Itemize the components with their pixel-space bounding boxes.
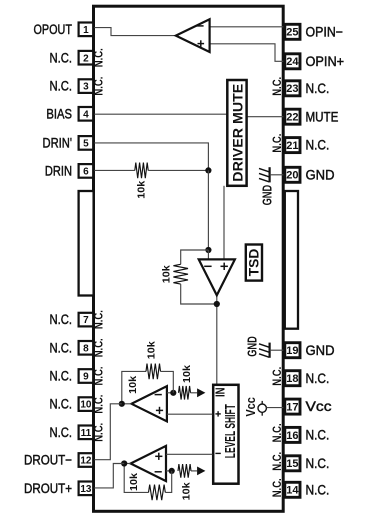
- wire R5 to arrow: [191, 470, 197, 472]
- pin 6 label DRIN: [45, 164, 72, 179]
- node B junction (U4 inverting input): [205, 247, 211, 253]
- svg-text:13: 13: [80, 484, 92, 495]
- label R2 10k: [161, 265, 173, 283]
- arrow into LEVEL SHIFT (lower): [197, 467, 205, 476]
- pin 13 box: [79, 482, 94, 496]
- wire pin4 BIAS to DRIVER MUTE block: [94, 113, 228, 115]
- label R5 10k: [180, 482, 192, 500]
- wire R1 to node A: [148, 169, 208, 171]
- U2 plus sign: [156, 407, 163, 414]
- svg-text:TSD: TSD: [247, 248, 262, 276]
- svg-text:GND: GND: [306, 167, 335, 182]
- inner N.C. label (pin 18): [270, 367, 284, 386]
- pin 9 box: [79, 369, 94, 383]
- wire node A down to node B: [207, 170, 209, 250]
- pin 2 box: [79, 51, 94, 65]
- inner N.C. label (pin 16): [270, 423, 284, 442]
- resistor R6 10k (U3 feedback): [149, 485, 166, 501]
- node D junction (U2 inverting): [170, 390, 176, 396]
- svg-text:N.C.: N.C.: [91, 367, 105, 386]
- inner N.C. label (pin 9): [91, 367, 105, 386]
- wire node G to pin13 DROUT+: [94, 464, 125, 488]
- wire gnd to pin19: [270, 349, 285, 351]
- svg-text:N.C.: N.C.: [270, 478, 284, 497]
- pin 12 label DROUT&#8722;: [24, 453, 72, 468]
- inner N.C. label (pin 14): [270, 478, 284, 497]
- pin 11 label N.C.: [50, 425, 73, 440]
- pin 3 box: [79, 79, 94, 93]
- pin 10 label N.C.: [50, 397, 73, 412]
- label GND rotated (pin19): [246, 336, 260, 357]
- pin 1 box: [79, 23, 94, 37]
- label LEVEL SHIFT IN: [213, 388, 227, 398]
- U4 minus sign: [204, 265, 211, 267]
- inner N.C. label (pin 21): [270, 134, 284, 153]
- svg-text:N.C.: N.C.: [306, 371, 330, 386]
- IC body outline: [94, 6, 284, 511]
- pin 19 box: [285, 343, 300, 358]
- resistor R1 10k (DRIN input): [135, 163, 148, 179]
- svg-text:5: 5: [83, 139, 89, 150]
- arrow into LEVEL SHIFT IN: [197, 388, 205, 397]
- svg-text:9: 9: [83, 372, 89, 383]
- svg-text:10: 10: [80, 400, 92, 411]
- svg-text:4: 4: [83, 109, 89, 120]
- svg-text:16: 16: [286, 430, 298, 442]
- wire U4 feedback top: [181, 250, 209, 264]
- label DRIVER MUTE: [229, 84, 245, 182]
- svg-text:25: 25: [286, 27, 298, 39]
- svg-text:N.C.: N.C.: [91, 338, 105, 357]
- wire U3 feedback left vertical: [124, 464, 148, 493]
- pin 8 box: [79, 341, 94, 355]
- wire DRIVER MUTE output down to U4 non-inverting input: [223, 186, 225, 260]
- svg-text:N.C.: N.C.: [270, 77, 284, 96]
- pin 22 label MUTE: [306, 109, 339, 124]
- label R3 10k: [181, 365, 193, 383]
- wire R2 to U4 output node: [181, 284, 217, 304]
- wire node E to pin12 DROUT-: [94, 404, 122, 460]
- svg-text:N.C.: N.C.: [50, 340, 73, 355]
- pin 20 label GND: [306, 167, 335, 182]
- svg-text:N.C.: N.C.: [306, 428, 330, 443]
- pin 22 box: [285, 109, 300, 124]
- svg-text:1: 1: [83, 25, 89, 36]
- svg-text:N.C.: N.C.: [306, 456, 330, 471]
- svg-text:OPOUT: OPOUT: [34, 22, 73, 37]
- left unused-pins bar: [79, 191, 94, 296]
- resistor R5 10k (U3 to level shift): [178, 464, 191, 478]
- svg-text:18: 18: [286, 373, 298, 385]
- pin 14 label N.C.: [306, 482, 330, 497]
- svg-text:MUTE: MUTE: [306, 109, 339, 124]
- wire pin1 OPOUT to op-amp U1 output: [94, 28, 177, 36]
- label LEVEL SHIFT minus: [215, 452, 220, 454]
- svg-text:23: 23: [286, 83, 298, 95]
- pin 7 label N.C.: [50, 312, 73, 327]
- U3 minus sign: [155, 471, 162, 473]
- svg-text:N.C.: N.C.: [50, 397, 73, 412]
- inner N.C. label (pin 2): [91, 48, 105, 67]
- svg-text:7: 7: [83, 315, 89, 326]
- svg-text:N.C.: N.C.: [91, 423, 105, 442]
- op-amp U3 (DROUT+ driver, points left): [131, 446, 166, 481]
- svg-text:DRIN: DRIN: [45, 164, 72, 179]
- svg-text:N.C.: N.C.: [50, 50, 73, 65]
- label 10k near U2 output node: [127, 376, 139, 394]
- svg-text:DRIN': DRIN': [43, 136, 73, 151]
- svg-text:8: 8: [83, 343, 89, 354]
- svg-text:BIAS: BIAS: [46, 106, 72, 121]
- label Vcc rotated (pin17): [243, 397, 258, 416]
- svg-text:N.C.: N.C.: [306, 138, 330, 153]
- svg-text:DROUT−: DROUT−: [24, 453, 72, 468]
- pin 3 label N.C.: [50, 79, 73, 94]
- op-amp U4 (driver amp, points down): [199, 259, 235, 295]
- pin 20 box: [285, 167, 300, 182]
- svg-text:GND: GND: [306, 343, 335, 358]
- U1 minus sign: [196, 25, 203, 27]
- svg-text:N.C.: N.C.: [91, 77, 105, 96]
- svg-text:15: 15: [286, 458, 298, 470]
- pin 18 label N.C.: [306, 371, 330, 386]
- wire U3 non-inverting input to LEVEL SHIFT: [166, 453, 212, 455]
- label GND rotated (pin20): [260, 185, 274, 206]
- svg-text:21: 21: [286, 140, 298, 152]
- block LEVEL SHIFT: [213, 385, 238, 484]
- pin 23 box: [285, 81, 300, 96]
- svg-text:N.C.: N.C.: [50, 79, 73, 94]
- pin 15 label N.C.: [306, 456, 330, 471]
- inner N.C. label (pin 7): [91, 310, 105, 329]
- inner N.C. label (pin 8): [91, 338, 105, 357]
- pin 19 label GND: [306, 343, 335, 358]
- pin 11 box: [79, 426, 94, 440]
- svg-text:3: 3: [83, 82, 89, 93]
- svg-text:19: 19: [286, 345, 298, 357]
- pin 1 label OPOUT: [34, 22, 73, 37]
- label R4 10k: [146, 341, 158, 359]
- wire op-amp U1 inverting input to pin25 OPIN-: [210, 26, 285, 28]
- wire op-amp U1 non-inverting input to pin24 OPIN+: [210, 44, 285, 62]
- Vcc terminal symbol at pin17: [258, 401, 266, 416]
- pin 13 label DROUT+: [24, 481, 72, 496]
- pin 5 label DRIN&#39;: [43, 136, 73, 151]
- svg-text:DROUT+: DROUT+: [24, 481, 72, 496]
- svg-text:10k: 10k: [135, 181, 147, 199]
- pin 9 label N.C.: [50, 369, 73, 384]
- pin 17 label Vcc: [306, 399, 332, 414]
- node F junction (U3 inverting): [169, 468, 175, 474]
- wire R3 to arrow: [191, 392, 198, 394]
- svg-text:N.C.: N.C.: [91, 395, 105, 414]
- resistor R4 10k (U2 feedback): [146, 364, 161, 380]
- label 10k near U3 output node: [128, 473, 140, 491]
- svg-text:GND: GND: [246, 336, 260, 357]
- svg-text:N.C.: N.C.: [91, 310, 105, 329]
- label TSD: [247, 248, 262, 276]
- wire Vcc to pin17: [266, 407, 284, 409]
- block DRIVER MUTE: [227, 80, 246, 186]
- label LEVEL SHIFT text: [223, 404, 239, 458]
- svg-text:10k: 10k: [128, 473, 140, 491]
- node E junction (U2 output): [119, 401, 125, 407]
- svg-text:N.C.: N.C.: [270, 134, 284, 153]
- svg-text:10k: 10k: [181, 365, 193, 383]
- svg-text:20: 20: [286, 170, 298, 182]
- op-amp U2 (DROUT- driver, points left): [132, 386, 167, 421]
- pin 24 label OPIN+: [306, 54, 345, 69]
- wire U2 feedback left vertical: [122, 371, 146, 403]
- inner N.C. label (pin 15): [270, 452, 284, 471]
- svg-text:Vcc: Vcc: [306, 399, 332, 414]
- node A junction (DRIN/DRIN'): [205, 167, 211, 173]
- inner N.C. label (pin 10): [91, 395, 105, 414]
- svg-text:Vcc: Vcc: [243, 397, 258, 416]
- pin 10 box: [79, 397, 94, 411]
- pin 17 box: [285, 399, 300, 414]
- pin 4 box: [79, 107, 94, 121]
- wire U2 inverting input: [167, 392, 173, 394]
- pin 21 label N.C.: [306, 138, 330, 153]
- pin 21 box: [285, 138, 300, 153]
- pin 6 box: [79, 164, 94, 178]
- svg-text:14: 14: [286, 485, 299, 497]
- op-amp U1 (input op-amp, points left): [176, 19, 210, 52]
- node C junction (U4 output): [214, 301, 220, 307]
- wire U3 inverting input: [166, 470, 172, 472]
- svg-text:DRIVER MUTE: DRIVER MUTE: [229, 84, 245, 182]
- svg-text:N.C.: N.C.: [50, 425, 73, 440]
- svg-text:OPIN+: OPIN+: [306, 54, 345, 69]
- U3 plus sign: [155, 453, 162, 460]
- wire DRIVER MUTE block to pin22 MUTE: [247, 116, 285, 118]
- svg-text:N.C.: N.C.: [270, 367, 284, 386]
- label LEVEL SHIFT plus: [215, 411, 220, 416]
- svg-text:12: 12: [80, 456, 92, 467]
- svg-text:10k: 10k: [161, 265, 173, 283]
- svg-text:N.C.: N.C.: [306, 81, 330, 96]
- wire gnd to pin20: [270, 174, 285, 176]
- pin 16 box: [285, 427, 300, 442]
- inner N.C. label (pin 23): [270, 77, 284, 96]
- svg-text:24: 24: [286, 56, 299, 68]
- pin 2 label N.C.: [50, 50, 73, 65]
- wire U2 output to node E: [122, 403, 132, 405]
- svg-text:17: 17: [286, 402, 298, 414]
- inner N.C. label (pin 3): [91, 77, 105, 96]
- inner N.C. label (pin 11): [91, 423, 105, 442]
- ground symbol at pin20: [259, 167, 270, 182]
- pin 4 label BIAS: [46, 106, 72, 121]
- svg-text:N.C.: N.C.: [270, 423, 284, 442]
- pin 18 box: [285, 371, 300, 386]
- resistor R3 10k (U2 to level shift): [179, 386, 191, 400]
- pin 14 box: [285, 482, 300, 497]
- svg-text:GND: GND: [260, 185, 274, 206]
- svg-text:11: 11: [81, 428, 92, 439]
- pin 24 box: [285, 54, 300, 69]
- svg-text:IN: IN: [213, 388, 227, 398]
- svg-text:N.C.: N.C.: [91, 48, 105, 67]
- pin 15 box: [285, 456, 300, 471]
- svg-text:10k: 10k: [127, 376, 139, 394]
- pin 7 box: [79, 313, 94, 327]
- pin 25 box: [285, 24, 300, 39]
- wire U4 output down to LEVEL SHIFT: [216, 295, 218, 385]
- pin 8 label N.C.: [50, 340, 73, 355]
- svg-text:10k: 10k: [180, 482, 192, 500]
- svg-text:N.C.: N.C.: [270, 452, 284, 471]
- svg-text:N.C.: N.C.: [306, 482, 330, 497]
- wire U2 non-inverting input to LEVEL SHIFT: [167, 413, 213, 415]
- ground symbol at pin19: [259, 343, 270, 358]
- pin 12 box: [79, 453, 94, 467]
- wire node B to U4 inverting input: [207, 250, 209, 260]
- pin 5 box: [79, 136, 94, 150]
- pin 16 label N.C.: [306, 428, 330, 443]
- block TSD: [246, 245, 262, 281]
- U2 minus sign: [155, 394, 162, 396]
- svg-text:10k: 10k: [146, 341, 158, 359]
- U4 plus sign: [221, 263, 228, 270]
- node G junction (U3 output): [121, 460, 127, 466]
- svg-text:6: 6: [83, 167, 89, 178]
- svg-text:N.C.: N.C.: [50, 369, 73, 384]
- wire pin5 DRIN' down to node A: [94, 143, 209, 171]
- pin 25 label OPIN&#8722;: [306, 24, 344, 39]
- svg-text:22: 22: [286, 112, 298, 124]
- svg-text:2: 2: [83, 53, 89, 64]
- resistor R2 10k (U4 feedback): [173, 264, 188, 284]
- right unused-pins bar: [285, 191, 298, 329]
- wire R4 to node D: [161, 371, 174, 392]
- svg-text:LEVEL SHIFT: LEVEL SHIFT: [223, 404, 239, 458]
- U1 plus sign: [198, 40, 205, 47]
- svg-text:N.C.: N.C.: [50, 312, 73, 327]
- svg-text:OPIN−: OPIN−: [306, 24, 344, 39]
- wire R6 to node F: [165, 471, 171, 493]
- wire pin6 DRIN left segment: [94, 169, 135, 171]
- wire U3 output to node G: [124, 463, 130, 465]
- pin 23 label N.C.: [306, 81, 330, 96]
- label R1 10k: [135, 181, 147, 199]
